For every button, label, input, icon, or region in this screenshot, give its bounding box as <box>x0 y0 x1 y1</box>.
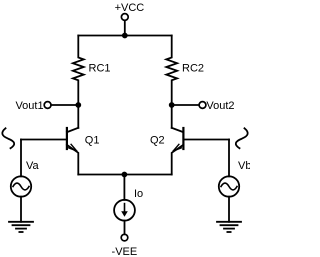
svg-text:Vout1: Vout1 <box>15 100 43 112</box>
svg-text:+VCC: +VCC <box>115 2 145 14</box>
svg-text:RC1: RC1 <box>89 62 111 74</box>
svg-text:Vb: Vb <box>238 160 250 172</box>
svg-text:Vout2: Vout2 <box>206 100 234 112</box>
svg-text:Q1: Q1 <box>85 134 100 146</box>
svg-text:RC2: RC2 <box>182 62 204 74</box>
svg-text:Q2: Q2 <box>150 134 165 146</box>
svg-text:Va: Va <box>26 160 40 172</box>
svg-text:Io: Io <box>134 188 143 200</box>
svg-text:-VEE: -VEE <box>112 246 138 257</box>
